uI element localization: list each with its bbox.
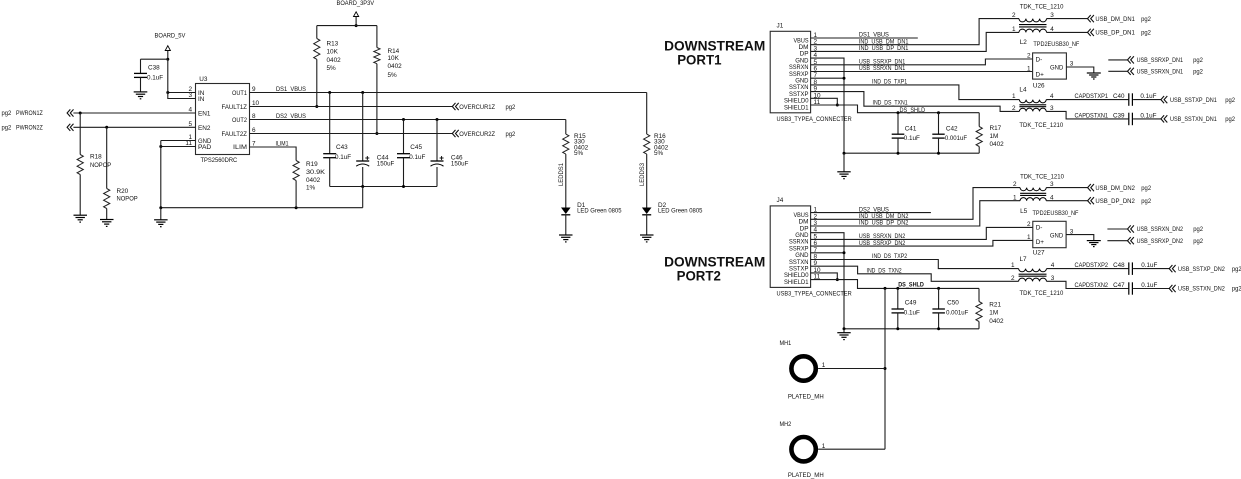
svg-text:0402: 0402 bbox=[388, 63, 403, 70]
svg-text:PWRON1Z: PWRON1Z bbox=[16, 110, 43, 117]
wire USB_DP_DN2 bbox=[1046, 200, 1087, 202]
svg-text:D-: D- bbox=[1036, 56, 1043, 63]
capacitor C44 bbox=[356, 93, 394, 187]
svg-text:FAULT1Z: FAULT1Z bbox=[222, 104, 248, 111]
pg2 USB_DP_DN2 port bbox=[1088, 197, 1152, 205]
node bbox=[159, 206, 162, 209]
svg-text:0.1uF: 0.1uF bbox=[904, 310, 920, 317]
svg-text:0.1uF: 0.1uF bbox=[1140, 113, 1156, 120]
wire U26 gnd bbox=[1066, 67, 1093, 73]
svg-text:C49: C49 bbox=[905, 300, 917, 307]
svg-text:USB_DP_DN2: USB_DP_DN2 bbox=[1095, 198, 1135, 205]
wire bbox=[843, 329, 845, 333]
svg-text:D+: D+ bbox=[1036, 239, 1045, 246]
svg-text:pg2: pg2 bbox=[1141, 185, 1151, 192]
svg-text:pg2: pg2 bbox=[1141, 30, 1151, 37]
capacitor C41 bbox=[892, 113, 920, 154]
resistor R14 bbox=[374, 26, 402, 134]
svg-text:J1: J1 bbox=[777, 22, 784, 29]
esd U27 TPD2EUSB30_NF bbox=[1027, 210, 1079, 257]
wire U27 gnd bbox=[1066, 235, 1094, 241]
capacitor C42 bbox=[932, 113, 967, 154]
svg-text:EN1: EN1 bbox=[198, 111, 211, 118]
svg-text:30.9K: 30.9K bbox=[306, 169, 326, 176]
capacitor C48 bbox=[1129, 262, 1133, 275]
svg-text:PORT2: PORT2 bbox=[677, 269, 722, 284]
svg-text:J4: J4 bbox=[777, 197, 784, 204]
svg-text:CAPDSTXN1: CAPDSTXN1 bbox=[1075, 113, 1109, 120]
capacitor C45 bbox=[397, 120, 425, 187]
wire shield to MH bbox=[884, 288, 886, 449]
wire bbox=[141, 58, 168, 60]
node bbox=[361, 185, 364, 188]
svg-text:4: 4 bbox=[1051, 262, 1055, 269]
capacitor C47 bbox=[1129, 282, 1133, 294]
svg-text:150uF: 150uF bbox=[451, 160, 469, 167]
svg-text:IND_DS_TXP1: IND_DS_TXP1 bbox=[872, 79, 907, 86]
svg-text:C45: C45 bbox=[410, 144, 422, 151]
svg-text:TPD2EUSB30_NF: TPD2EUSB30_NF bbox=[1033, 210, 1079, 217]
title DOWNSTREAM PORT1 bbox=[664, 39, 765, 68]
node bbox=[843, 327, 846, 330]
svg-text:TDK_TCE_1210: TDK_TCE_1210 bbox=[1019, 122, 1063, 129]
wire EN2 bbox=[73, 126, 195, 128]
svg-text:IND_DS_TXN2: IND_DS_TXN2 bbox=[867, 267, 902, 274]
svg-text:CAPDSTXP1: CAPDSTXP1 bbox=[1075, 93, 1109, 100]
capacitor C46 bbox=[431, 120, 469, 187]
connector J1 USB3_TYPEA bbox=[770, 22, 852, 123]
svg-text:4: 4 bbox=[1050, 93, 1054, 100]
pg2 USB_SSTXP_DN1 port bbox=[1161, 96, 1236, 104]
wire bbox=[1133, 262, 1169, 269]
pg2 USB_DM_DN1 port bbox=[1088, 15, 1152, 23]
svg-text:0.1uF: 0.1uF bbox=[1141, 262, 1157, 269]
svg-text:PLATED_MH: PLATED_MH bbox=[788, 393, 824, 400]
svg-text:CAPDSTXN2: CAPDSTXN2 bbox=[1075, 282, 1109, 289]
wire USB_DP_DN1 bbox=[1047, 31, 1088, 33]
svg-text:MH2: MH2 bbox=[780, 421, 792, 428]
svg-text:FAULT2Z: FAULT2Z bbox=[222, 131, 248, 138]
svg-text:3: 3 bbox=[1070, 60, 1074, 67]
wire USB_SSRXP_DN1 pin5 bbox=[811, 59, 1033, 66]
pg2 USB_SSRXP_DN1 port bbox=[1108, 56, 1203, 64]
wire GND pin7 bbox=[811, 252, 844, 254]
svg-text:BOARD_3P3V: BOARD_3P3V bbox=[337, 0, 375, 7]
wire GND pin4 bbox=[811, 58, 844, 153]
svg-text:USB_DM_DN2: USB_DM_DN2 bbox=[1095, 185, 1135, 192]
node bbox=[836, 104, 839, 107]
wire bbox=[1133, 93, 1161, 100]
svg-text:pg2: pg2 bbox=[1232, 286, 1241, 293]
svg-text:TDK_TCE_1210: TDK_TCE_1210 bbox=[1020, 174, 1064, 181]
diode D1 LED bbox=[561, 202, 622, 235]
svg-text:C42: C42 bbox=[946, 125, 958, 132]
node bbox=[843, 152, 846, 155]
svg-text:0.1uF: 0.1uF bbox=[1141, 282, 1157, 289]
wire IND_DS_TXP1 pin8 bbox=[811, 79, 1020, 100]
ground bbox=[100, 220, 114, 227]
svg-text:BOARD_5V: BOARD_5V bbox=[155, 33, 187, 40]
svg-text:USB_SSRXN_DN1: USB_SSRXN_DN1 bbox=[859, 65, 906, 72]
svg-text:IN: IN bbox=[198, 96, 205, 103]
pg2 USB_SSTXP_DN2 port bbox=[1169, 265, 1241, 273]
svg-text:L5: L5 bbox=[1020, 208, 1028, 215]
svg-text:D+: D+ bbox=[1036, 71, 1045, 78]
pg2 PWRON2Z port bbox=[2, 124, 74, 132]
wire DS_SHLD pin11 bbox=[811, 105, 980, 114]
svg-text:C39: C39 bbox=[1113, 113, 1125, 120]
node bbox=[884, 367, 887, 370]
mounting hole MH1 bbox=[780, 340, 886, 400]
node bbox=[166, 91, 169, 94]
svg-text:1M: 1M bbox=[990, 133, 999, 140]
wire bbox=[160, 208, 162, 220]
svg-text:TDK_TCE_1210: TDK_TCE_1210 bbox=[1020, 290, 1064, 297]
diode D2 LED bbox=[642, 202, 703, 235]
svg-text:IND_DS_TXN1: IND_DS_TXN1 bbox=[873, 99, 908, 106]
wire IND_USB_DM_DN2 pin2 bbox=[811, 188, 1021, 220]
svg-text:10K: 10K bbox=[388, 55, 400, 62]
node bbox=[375, 132, 378, 135]
svg-text:pg2: pg2 bbox=[2, 110, 12, 117]
svg-text:pg2: pg2 bbox=[1141, 198, 1151, 205]
wire PAD pin11 bbox=[161, 146, 196, 148]
wire IND_USB_DP_DN1 pin3 bbox=[811, 32, 1019, 52]
pg2 USB_DM_DN2 port bbox=[1088, 184, 1152, 192]
ground bbox=[1087, 241, 1101, 247]
svg-text:DOWNSTREAM: DOWNSTREAM bbox=[664, 39, 765, 54]
node bbox=[436, 118, 439, 121]
svg-text:USB_SSTXN_DN2: USB_SSTXN_DN2 bbox=[1178, 286, 1225, 293]
node bbox=[896, 327, 899, 330]
svg-text:1%: 1% bbox=[306, 185, 316, 192]
svg-text:0.1uF: 0.1uF bbox=[1140, 93, 1156, 100]
svg-text:0402: 0402 bbox=[990, 141, 1005, 148]
node bbox=[328, 91, 331, 94]
wire gnd rail bbox=[161, 141, 363, 208]
svg-text:EN2: EN2 bbox=[198, 125, 211, 132]
svg-text:OVERCUR1Z: OVERCUR1Z bbox=[459, 104, 495, 111]
svg-text:C41: C41 bbox=[905, 125, 917, 132]
svg-text:2: 2 bbox=[1012, 12, 1016, 19]
node bbox=[836, 278, 839, 281]
svg-text:PORT1: PORT1 bbox=[677, 53, 722, 68]
svg-text:1: 1 bbox=[1027, 234, 1031, 241]
svg-text:pg2: pg2 bbox=[1193, 57, 1203, 64]
svg-text:TDK_TCE_1210: TDK_TCE_1210 bbox=[1020, 4, 1064, 11]
svg-text:C38: C38 bbox=[148, 65, 160, 72]
node bbox=[897, 152, 900, 155]
node bbox=[896, 287, 899, 290]
svg-text:0.1uF: 0.1uF bbox=[147, 74, 163, 81]
svg-text:LEDDS1: LEDDS1 bbox=[558, 163, 565, 186]
svg-text:5%: 5% bbox=[388, 72, 398, 79]
ground bbox=[74, 215, 88, 222]
wire IND_USB_DP_DN2 pin3 bbox=[811, 201, 1021, 227]
svg-text:pg2: pg2 bbox=[1193, 69, 1203, 76]
svg-text:PLATED_MH: PLATED_MH bbox=[788, 472, 824, 479]
pg2 PWRON1Z port bbox=[2, 109, 74, 117]
resistor R13 bbox=[314, 26, 341, 107]
pg2 USB_SSRXN_DN1 port bbox=[1108, 68, 1203, 76]
resistor R17 bbox=[976, 113, 1004, 154]
svg-text:USB_SSTXP_DN2: USB_SSTXP_DN2 bbox=[1178, 266, 1225, 273]
svg-text:IND_DS_TXP2: IND_DS_TXP2 bbox=[872, 253, 907, 260]
wire bbox=[362, 187, 364, 208]
node bbox=[79, 112, 82, 115]
svg-text:L7: L7 bbox=[1020, 256, 1028, 263]
svg-text:USB_DP_DN1: USB_DP_DN1 bbox=[1095, 30, 1135, 37]
wire IN pin2 bbox=[168, 92, 196, 94]
node bbox=[361, 91, 364, 94]
svg-text:1M: 1M bbox=[989, 310, 998, 317]
wire DS2_VBUS bbox=[250, 113, 566, 120]
svg-text:R19: R19 bbox=[306, 161, 318, 168]
mounting hole MH2 bbox=[780, 421, 886, 479]
svg-text:DS_SHLD: DS_SHLD bbox=[900, 107, 926, 114]
svg-text:USB3_TYPEA_CONNECTER: USB3_TYPEA_CONNECTER bbox=[777, 291, 853, 298]
node bbox=[295, 206, 298, 209]
svg-text:1: 1 bbox=[1027, 65, 1031, 72]
svg-text:1: 1 bbox=[1012, 93, 1016, 100]
svg-text:ILIM: ILIM bbox=[233, 144, 247, 151]
svg-text:DS_SHLD: DS_SHLD bbox=[898, 282, 924, 289]
wire IND_DS_TXN1 pin9 bbox=[811, 92, 1020, 112]
node bbox=[937, 287, 940, 290]
svg-text:2: 2 bbox=[1027, 52, 1031, 59]
svg-text:USB_SSRXP_DN2: USB_SSRXP_DN2 bbox=[859, 240, 906, 247]
op-amp U3 box bbox=[196, 76, 250, 164]
svg-text:D-: D- bbox=[1036, 225, 1043, 232]
wire CAPDSTXN1 bbox=[1046, 111, 1128, 119]
svg-text:0.1uF: 0.1uF bbox=[409, 154, 425, 161]
svg-text:0.001uF: 0.001uF bbox=[946, 310, 968, 317]
pg2 USB_SSTXN_DN1 port bbox=[1161, 115, 1236, 123]
svg-text:pg2: pg2 bbox=[1193, 238, 1203, 245]
pg2 USB_SSTXN_DN2 port bbox=[1169, 285, 1241, 293]
capacitor C43 bbox=[323, 93, 351, 187]
svg-text:IND_USB_DP_DN2: IND_USB_DP_DN2 bbox=[859, 220, 909, 227]
node bbox=[937, 327, 940, 330]
svg-text:5%: 5% bbox=[574, 150, 584, 157]
svg-text:R17: R17 bbox=[990, 125, 1002, 132]
svg-text:C50: C50 bbox=[947, 300, 959, 307]
wire FAULT1Z bbox=[250, 106, 453, 108]
wire USB_SSRXN_DN2 pin5 bbox=[811, 227, 1033, 240]
svg-text:1: 1 bbox=[1011, 262, 1015, 269]
wire DS1_VBUS pin1 bbox=[811, 32, 918, 39]
U3 pin numbers bbox=[185, 86, 259, 148]
wire gnd rail port1 bbox=[844, 152, 979, 154]
wire ILIM bbox=[250, 147, 297, 161]
node bbox=[843, 77, 846, 80]
svg-text:NOPOP: NOPOP bbox=[117, 196, 138, 203]
wire pin10 bbox=[811, 273, 838, 280]
wire cap gnd rail bbox=[330, 186, 437, 188]
svg-text:U3: U3 bbox=[199, 76, 208, 83]
wire CAPDSTXN2 bbox=[1047, 281, 1129, 289]
svg-text:OVERCUR2Z: OVERCUR2Z bbox=[459, 131, 495, 138]
inductor L7 TDK_TCE_1210 bbox=[1011, 256, 1064, 297]
ground bbox=[134, 92, 148, 99]
svg-text:2: 2 bbox=[1027, 221, 1031, 228]
svg-text:R13: R13 bbox=[327, 41, 339, 48]
node bbox=[843, 251, 846, 254]
wire GND pin1 bbox=[161, 140, 196, 142]
svg-text:TPS2560DRC: TPS2560DRC bbox=[201, 157, 238, 164]
node BOARD_5V junction bbox=[166, 58, 169, 61]
wire bbox=[843, 153, 845, 172]
wire gnd rail port2 bbox=[844, 328, 979, 330]
svg-text:USB_SSRXN_DN2: USB_SSRXN_DN2 bbox=[1137, 226, 1184, 233]
svg-text:1: 1 bbox=[1012, 26, 1016, 33]
svg-text:L2: L2 bbox=[1020, 39, 1028, 46]
node bbox=[897, 111, 900, 114]
svg-text:OUT2: OUT2 bbox=[232, 117, 247, 124]
resistor R19 bbox=[293, 161, 326, 208]
ground bbox=[640, 235, 654, 242]
svg-text:C48: C48 bbox=[1113, 262, 1125, 269]
resistor R16 bbox=[644, 93, 669, 208]
wire 3P3V rail bbox=[317, 25, 377, 27]
svg-text:0402: 0402 bbox=[306, 177, 321, 184]
svg-text:PWRON2Z: PWRON2Z bbox=[16, 125, 43, 132]
inductor L5 TDK_TCE_1210 bbox=[1013, 174, 1064, 215]
svg-text:OUT1: OUT1 bbox=[232, 90, 247, 97]
node bbox=[105, 126, 108, 129]
node bbox=[402, 118, 405, 121]
U3 pin labels bbox=[198, 90, 247, 151]
wire DS2_VBUS pin1 bbox=[811, 206, 931, 213]
svg-text:C43: C43 bbox=[336, 144, 348, 151]
title DOWNSTREAM PORT2 bbox=[664, 255, 765, 284]
svg-text:U27: U27 bbox=[1033, 250, 1045, 257]
wire IND_DS_TXP2 pin8 bbox=[811, 253, 1019, 268]
resistor R21 bbox=[976, 288, 1004, 328]
svg-text:5%: 5% bbox=[327, 65, 337, 72]
svg-text:USB3_TYPEA_CONNECTER: USB3_TYPEA_CONNECTER bbox=[777, 116, 853, 123]
svg-text:R20: R20 bbox=[117, 188, 129, 195]
pg2 OVERCUR1Z port bbox=[452, 103, 515, 111]
resistor R15 bbox=[563, 120, 589, 208]
ground bbox=[559, 235, 573, 242]
svg-text:ILIM1: ILIM1 bbox=[276, 140, 289, 147]
svg-text:DS1_VBUS: DS1_VBUS bbox=[276, 86, 306, 93]
node bbox=[355, 24, 358, 27]
capacitor C39 bbox=[1129, 113, 1133, 126]
node LEDDS1 label bbox=[558, 163, 565, 186]
svg-text:SHIELD1: SHIELD1 bbox=[784, 104, 809, 111]
svg-text:pg2: pg2 bbox=[506, 131, 516, 138]
svg-text:USB_SSRXP_DN1: USB_SSRXP_DN1 bbox=[1137, 57, 1184, 64]
svg-text:1: 1 bbox=[1013, 194, 1017, 201]
esd U26 TPD2EUSB30_NF bbox=[1027, 41, 1079, 90]
svg-text:pg2: pg2 bbox=[1232, 266, 1241, 273]
wire USB_SSRXN_DN1 pin6 bbox=[811, 65, 1033, 72]
svg-text:pg2: pg2 bbox=[1225, 97, 1235, 104]
svg-text:10K: 10K bbox=[327, 49, 339, 56]
svg-text:NOPOP: NOPOP bbox=[90, 162, 111, 169]
node ILIM1 label bbox=[276, 140, 289, 147]
svg-text:R21: R21 bbox=[989, 301, 1001, 308]
ground bbox=[154, 220, 168, 227]
svg-text:U26: U26 bbox=[1033, 82, 1045, 89]
ground bbox=[837, 333, 850, 340]
wire GND pin4 bbox=[811, 233, 844, 329]
svg-text:pg2: pg2 bbox=[1141, 16, 1151, 23]
svg-text:2: 2 bbox=[1013, 181, 1017, 188]
svg-text:0.1uF: 0.1uF bbox=[904, 135, 920, 142]
wire IND_DS_TXN2 pin9 bbox=[811, 266, 1019, 281]
svg-text:pg2: pg2 bbox=[506, 104, 516, 111]
svg-text:LEDDS3: LEDDS3 bbox=[639, 163, 646, 186]
wire USB_DM_DN2 bbox=[1046, 187, 1087, 189]
wire bbox=[1133, 282, 1169, 289]
svg-text:150uF: 150uF bbox=[377, 160, 395, 167]
capacitor C49 bbox=[892, 288, 920, 328]
wire EN1 bbox=[73, 112, 195, 114]
svg-text:IND_USB_DP_DN1: IND_USB_DP_DN1 bbox=[859, 45, 909, 52]
svg-text:USB_SSRXP_DN2: USB_SSRXP_DN2 bbox=[1137, 238, 1184, 245]
ground bbox=[837, 172, 850, 179]
svg-text:2: 2 bbox=[1011, 275, 1015, 282]
svg-text:0.001uF: 0.001uF bbox=[945, 135, 967, 142]
svg-text:CAPDSTXP2: CAPDSTXP2 bbox=[1075, 262, 1109, 269]
pg2 OVERCUR2Z port bbox=[452, 130, 515, 138]
node bbox=[884, 287, 887, 290]
svg-text:USB_SSRXN_DN1: USB_SSRXN_DN1 bbox=[1137, 69, 1184, 76]
svg-text:GND: GND bbox=[1050, 64, 1064, 71]
node bbox=[937, 152, 940, 155]
inductor L4 TDK_TCE_1210 bbox=[1012, 87, 1064, 129]
pg2 USB_SSRXP_DN2 port bbox=[1107, 237, 1203, 245]
wire CAPDSTXP1 bbox=[1046, 93, 1128, 100]
svg-text:2: 2 bbox=[1012, 105, 1016, 112]
pg2 USB_SSRXN_DN2 port bbox=[1107, 225, 1203, 233]
svg-text:GND: GND bbox=[1050, 233, 1064, 240]
svg-text:USB_DM_DN1: USB_DM_DN1 bbox=[1095, 16, 1135, 23]
pg2 USB_DP_DN1 port bbox=[1088, 29, 1152, 37]
svg-text:0402: 0402 bbox=[327, 57, 342, 64]
wire FAULT2Z bbox=[250, 133, 453, 135]
svg-text:0402: 0402 bbox=[989, 318, 1004, 325]
svg-text:5%: 5% bbox=[654, 150, 664, 157]
connector J4 USB3_TYPEA bbox=[770, 197, 852, 298]
svg-text:LED Green 0805: LED Green 0805 bbox=[658, 208, 703, 215]
ground bbox=[1087, 73, 1101, 79]
wire DS_SHLD pin11 bbox=[811, 280, 979, 289]
wire IND_USB_DM_DN1 pin2 bbox=[811, 19, 1019, 46]
capacitor C50 bbox=[932, 288, 968, 328]
svg-text:PAD: PAD bbox=[198, 144, 212, 151]
svg-text:DOWNSTREAM: DOWNSTREAM bbox=[664, 255, 765, 270]
svg-text:C40: C40 bbox=[1113, 93, 1125, 100]
resistor R18 NOPOP bbox=[77, 113, 111, 215]
wire DS1_VBUS bbox=[250, 86, 647, 93]
wire USB_DM_DN1 bbox=[1047, 18, 1088, 20]
power BOARD_3P3V bbox=[337, 0, 375, 26]
svg-text:SHIELD1: SHIELD1 bbox=[784, 279, 809, 286]
node bbox=[159, 145, 162, 148]
svg-text:0.1uF: 0.1uF bbox=[335, 154, 351, 161]
svg-text:MH1: MH1 bbox=[780, 340, 792, 347]
svg-text:TPD2EUSB30_NF: TPD2EUSB30_NF bbox=[1033, 41, 1079, 48]
svg-text:USB_SSTXP_DN1: USB_SSTXP_DN1 bbox=[1170, 97, 1217, 104]
svg-text:pg2: pg2 bbox=[2, 125, 12, 132]
capacitor C38 bbox=[134, 59, 163, 91]
wire CAPDSTXP2 bbox=[1047, 262, 1129, 269]
svg-text:USB_SSTXN_DN1: USB_SSTXN_DN1 bbox=[1170, 116, 1217, 123]
